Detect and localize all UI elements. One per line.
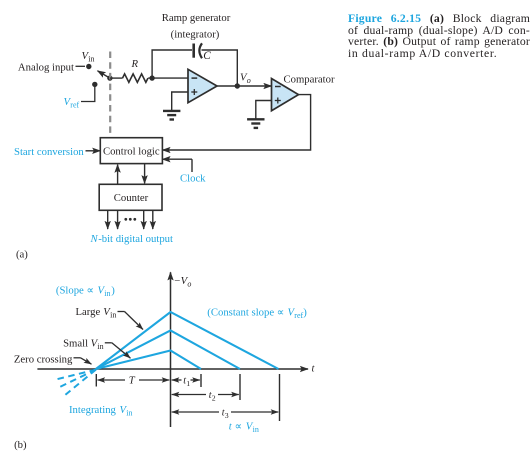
svg-text:Small: Small: [63, 337, 88, 349]
svg-text:C: C: [203, 50, 211, 62]
svg-text:): ): [303, 306, 307, 318]
svg-text:Zero crossing: Zero crossing: [14, 354, 73, 366]
label Integrating Vin: [69, 404, 133, 418]
svg-text:(Constant slope ∝: (Constant slope ∝: [207, 306, 284, 318]
svg-text:2: 2: [212, 394, 216, 403]
svg-text:Counter: Counter: [114, 192, 149, 204]
label Small Vin + arrow: [63, 337, 130, 358]
svg-text:ref: ref: [294, 311, 303, 320]
dashed extrapolation (integrating Vin): [55, 370, 96, 395]
resistor R: [123, 58, 148, 82]
wire clock + label Clock: [162, 159, 206, 184]
label Start conversion + arrow: [14, 146, 100, 158]
svg-text:t: t: [312, 363, 316, 375]
wire resistor to op-amp: [148, 77, 188, 79]
capacitor C: [194, 43, 212, 62]
dimension T: [98, 375, 170, 387]
wire U2 plus to ground: [256, 101, 272, 119]
label (Constant slope prop Vref): [207, 306, 307, 320]
svg-text:(integrator): (integrator): [171, 29, 220, 41]
op-amp U2 (comparator): [272, 74, 335, 111]
svg-text:Ramp generator: Ramp generator: [162, 12, 231, 24]
tick T-start: [95, 374, 97, 387]
svg-text:in: in: [253, 425, 259, 434]
axis -Vo (vertical): [171, 272, 192, 427]
wire feedback right: [202, 50, 238, 86]
svg-text:in: in: [104, 289, 110, 298]
svg-text:in: in: [97, 342, 103, 351]
ramp small Vin: [96, 351, 201, 370]
tick t1-end: [200, 374, 202, 387]
svg-text:(a): (a): [16, 248, 28, 260]
svg-text:Large: Large: [76, 306, 101, 318]
label (Slope prop Vin): [56, 285, 115, 299]
dimension t1: [172, 376, 200, 389]
label Zero crossing + arrow: [14, 354, 92, 366]
svg-text:∝: ∝: [232, 421, 245, 433]
axis t (horizontal): [37, 363, 315, 375]
svg-text:o: o: [247, 76, 251, 85]
svg-text:−: −: [174, 275, 180, 287]
dimension t3: [172, 408, 279, 421]
svg-text:(Slope ∝: (Slope ∝: [56, 285, 94, 297]
svg-text:Start conversion: Start conversion: [14, 146, 84, 158]
ground (U2): [247, 119, 264, 128]
svg-text:N: N: [90, 233, 99, 245]
svg-text:1: 1: [186, 379, 190, 388]
box Counter: [99, 184, 162, 210]
svg-text:o: o: [187, 280, 191, 289]
node Vin: [82, 50, 95, 69]
wire U1 plus to ground: [172, 92, 188, 110]
svg-text:Integrating: Integrating: [69, 404, 117, 416]
svg-text:): ): [111, 285, 115, 297]
svg-text:3: 3: [225, 411, 229, 420]
switch arm: [98, 71, 110, 78]
svg-text:in: in: [88, 55, 94, 64]
op-amp U1 (integrator): [188, 69, 217, 102]
label: Analog input: [18, 61, 85, 73]
ramp medium Vin: [96, 331, 240, 370]
label Vref: [64, 96, 80, 110]
wire Vref: [81, 84, 95, 101]
counter output arrows: [108, 210, 153, 229]
svg-text:(b): (b): [14, 439, 27, 451]
switch control dashed line: [109, 52, 111, 138]
figure caption: [348, 13, 530, 60]
tick t3-end: [279, 374, 281, 421]
svg-text:in: in: [126, 409, 132, 418]
switch pivot node: [107, 75, 112, 80]
dimension t2: [172, 390, 239, 403]
wire feedback left: [152, 50, 192, 78]
wire Vo to comparator: [237, 85, 271, 87]
label t prop Vin: [229, 421, 259, 435]
svg-text:Clock: Clock: [180, 172, 206, 184]
svg-text:Analog input: Analog input: [18, 61, 74, 73]
svg-text:R: R: [131, 58, 139, 70]
label Large Vin + arrow: [76, 306, 144, 330]
svg-text:T: T: [129, 375, 136, 387]
svg-text:Control logic: Control logic: [103, 146, 160, 158]
node Vref: [92, 82, 97, 87]
ramp large Vin: [96, 312, 279, 369]
box Control logic: [100, 138, 162, 164]
arrow counter to control logic: [117, 165, 119, 185]
arrow control logic to counter: [144, 164, 146, 184]
tick t2-end: [239, 374, 241, 400]
svg-text:-bit digital output: -bit digital output: [98, 233, 173, 245]
svg-text:ref: ref: [70, 101, 79, 110]
svg-text:Comparator: Comparator: [284, 74, 335, 86]
wire pivot to resistor: [110, 77, 123, 79]
node junction (R / feedback): [149, 75, 154, 80]
node Vo: [235, 72, 251, 89]
ground (U1): [163, 111, 180, 120]
wire U1 output: [217, 85, 237, 87]
wire comparator feedback to control logic: [162, 95, 310, 150]
svg-text:in: in: [110, 311, 116, 320]
label N-bit digital output: [90, 233, 174, 245]
